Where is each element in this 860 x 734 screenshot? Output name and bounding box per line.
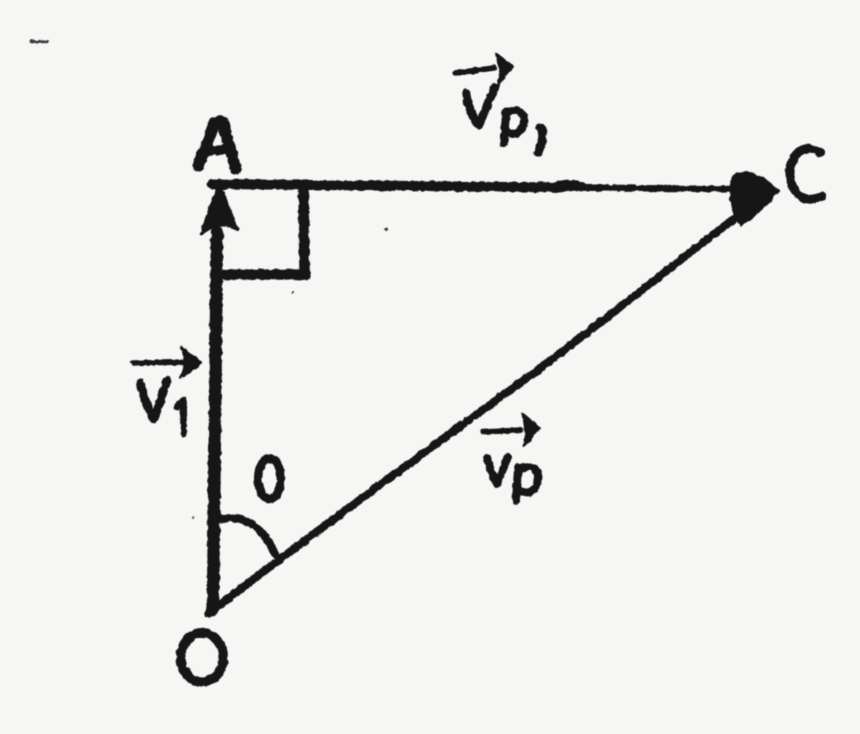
label theta (258, 458, 281, 499)
vector VP1 line (A to C, horizontal) (212, 184, 565, 188)
angle arc at O (220, 518, 275, 554)
label V1: over-arrow (133, 362, 186, 363)
label VP1: subscript P (504, 112, 506, 143)
speck near right-angle (384, 228, 387, 231)
vector VP line (O to C, diagonal) (208, 216, 738, 614)
vector V1 arrowhead (202, 185, 237, 233)
label VP1: over-arrow (455, 68, 494, 73)
node label O (181, 633, 223, 682)
label VP: letter V (487, 457, 508, 484)
arrowhead at C (shared) (731, 173, 778, 225)
bump on VP1 line (559, 183, 582, 185)
label VP1: letter V (466, 87, 495, 125)
node label C (790, 149, 822, 200)
label VP: over-arrow (483, 430, 521, 432)
right-angle mark vertical (304, 190, 305, 270)
label V1: subscript 1 (177, 400, 184, 434)
speck left of arc (192, 516, 194, 518)
label V1: letter V (140, 381, 167, 419)
vector V1 shaft (O to A, vertical) (213, 232, 217, 610)
speck below right-angle (292, 291, 295, 294)
label VP: subscript P (516, 468, 518, 501)
label VP1: subscript 1 (538, 127, 542, 153)
right-angle mark horizontal (223, 269, 306, 280)
stray dash top-left (31, 41, 47, 42)
node label A (198, 121, 236, 169)
